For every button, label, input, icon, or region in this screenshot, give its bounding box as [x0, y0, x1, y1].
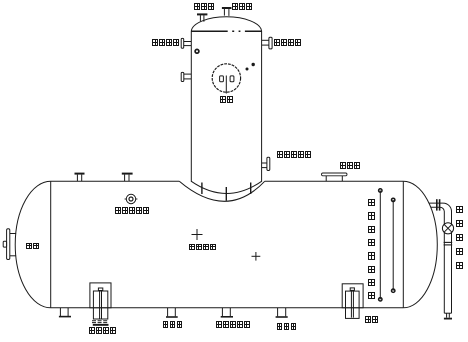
- label xieshuikou: [276, 323, 297, 330]
- water seal pipe bottom foot: [444, 313, 452, 318]
- liquid level device bottom flange stack: [92, 321, 109, 326]
- column manhole bolt circle: [212, 64, 240, 92]
- column to tank junction lower arc: [179, 181, 264, 201]
- safety valve stub on dome left slope: [197, 14, 207, 21]
- label renkong tank manhole: [26, 243, 40, 250]
- water seal valve circle with X: [442, 223, 453, 234]
- tank bottom foot nozzle (unlabeled): [59, 308, 71, 317]
- horizontal tank top shell line right segment: [265, 180, 404, 182]
- label ningjieshuikou: [152, 39, 180, 46]
- label zaifeitengguankou: [215, 321, 250, 328]
- bottom nozzle xieshuikou drain: [276, 308, 288, 317]
- label gaoshuiweijiekou: [115, 207, 150, 214]
- label ruanhuashuikou: [274, 39, 302, 46]
- label zhizuo support: [365, 316, 379, 323]
- nozzle ruanhuashuikou softened water inlet (column right): [262, 37, 273, 49]
- horizontal tank top shell line left segment: [51, 180, 180, 182]
- label yalibiaokou pressure gauge: [188, 244, 216, 251]
- junction tick left: [201, 183, 203, 195]
- liquid level device center pipe: [98, 288, 102, 319]
- small unlabeled nozzle column left: [181, 72, 191, 81]
- bottom nozzle zaifeitengguankou reboil pipe: [221, 308, 233, 317]
- tank top nozzle 2: [122, 174, 133, 182]
- label anquanfa safety valve: [194, 3, 215, 10]
- liquid level device inner sleeve: [93, 291, 107, 319]
- bottom nozzle yongshuikou water outlet: [166, 308, 178, 317]
- vessel column dome base weld line: [191, 30, 261, 32]
- dome base weld line white dashes: [228, 30, 245, 32]
- column manhole hinge lugs: [220, 76, 234, 82]
- high water level connection circle: [125, 194, 138, 203]
- tank right head weld seam: [402, 181, 404, 307]
- vessel vertical column right wall: [261, 31, 263, 182]
- liquid level device outer box: [90, 283, 111, 308]
- label tongfengkou: [339, 162, 360, 169]
- vessel column dome head: [191, 17, 261, 31]
- label yongshuikou: [162, 321, 183, 328]
- water seal pipe flange pair: [437, 199, 440, 210]
- nozzle ningjieshuikou condensate inlet (column left): [181, 38, 191, 48]
- nozzle jiarezhengqikou heating steam inlet (column right): [262, 157, 270, 170]
- nozzle paiyangkou vent stub on dome top: [222, 8, 232, 16]
- water seal pipe union: [444, 242, 453, 245]
- tank left elliptical head: [15, 181, 50, 307]
- support zhizuo outer box: [342, 284, 363, 308]
- tank right elliptical head: [403, 181, 437, 307]
- label renkong column manhole: [220, 96, 234, 103]
- second cross mark: [252, 252, 261, 261]
- level gauge line B: [392, 198, 395, 292]
- column to tank junction upper arc: [191, 181, 261, 193]
- label paiyangkou: [232, 3, 253, 10]
- label dianjiedian shuiweiji jiekou vertical: [368, 199, 375, 299]
- junction tick right: [250, 183, 252, 195]
- small dot marks right of manhole: [246, 63, 255, 71]
- column manhole centerline: [225, 76, 227, 94]
- junction tick center: [225, 187, 227, 201]
- water seal pipe vertical run: [444, 212, 451, 314]
- support zhizuo center pipe: [350, 288, 354, 318]
- pressure gauge cross mark: [192, 229, 203, 240]
- horizontal tank bottom shell line: [51, 307, 404, 309]
- water seal pipe horizontal run: [429, 203, 452, 211]
- tank left head manhole nozzle: [3, 229, 16, 260]
- nozzle tongfengkou vent (tank top right): [322, 173, 348, 181]
- label jiarezhengqikou: [276, 151, 311, 158]
- tank left head weld seam: [50, 181, 52, 307]
- vessel vertical column left wall: [190, 31, 192, 182]
- label shuifengguanjiekou vertical: [456, 206, 463, 270]
- tank top nozzle 1: [75, 174, 85, 182]
- level gauge line A: [379, 189, 382, 301]
- label yeweizhuangzhi: [88, 327, 116, 334]
- support zhizuo inner sleeve: [346, 291, 360, 318]
- ring mark on column shell: [195, 49, 199, 53]
